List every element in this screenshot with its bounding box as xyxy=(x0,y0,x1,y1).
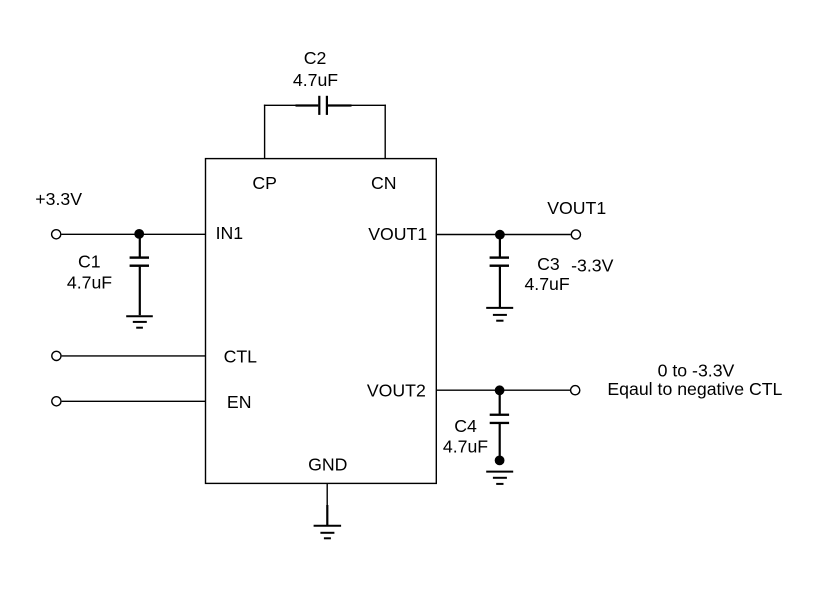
svg-text:Eqaul to negative CTL: Eqaul to negative CTL xyxy=(607,379,782,399)
svg-text:VOUT1: VOUT1 xyxy=(547,198,606,218)
svg-text:C2: C2 xyxy=(304,48,327,68)
capacitor C3 xyxy=(490,235,509,307)
svg-text:-3.3V: -3.3V xyxy=(571,255,613,275)
svg-text:4.7uF: 4.7uF xyxy=(524,274,569,294)
svg-text:4.7uF: 4.7uF xyxy=(443,437,488,457)
terminal CTL xyxy=(52,351,61,360)
capacitor C4 xyxy=(490,390,509,460)
junction dot VOUT2/C4 xyxy=(495,385,505,395)
junction dot VOUT1/C3 xyxy=(495,230,505,240)
svg-text:CN: CN xyxy=(371,173,397,193)
terminal VOUT1 xyxy=(571,230,580,239)
svg-text:EN: EN xyxy=(227,392,252,412)
wire CN to C2 right vertical xyxy=(384,105,386,159)
ground GND lead xyxy=(326,505,328,526)
capacitor C2 xyxy=(296,96,352,115)
junction dot IN1/C1 xyxy=(134,229,144,239)
junction dot C4/ground xyxy=(495,456,505,466)
svg-text:C4: C4 xyxy=(454,416,477,436)
svg-text:IN1: IN1 xyxy=(216,223,244,243)
terminal VOUT2 xyxy=(571,386,580,395)
svg-text:C3: C3 xyxy=(537,254,560,274)
wire EN xyxy=(62,400,206,402)
wire C2 top right horizontal xyxy=(351,104,386,106)
svg-text:CP: CP xyxy=(252,173,277,193)
terminal EN xyxy=(52,397,61,406)
wire C2 top left horizontal xyxy=(264,104,297,106)
wire CP to C2 left vertical xyxy=(264,105,266,159)
ground C4 xyxy=(486,472,513,484)
svg-text:CTL: CTL xyxy=(224,346,258,366)
svg-text:VOUT1: VOUT1 xyxy=(368,224,427,244)
wire CTL xyxy=(62,355,206,357)
svg-text:4.7uF: 4.7uF xyxy=(293,70,338,90)
wire VOUT2 xyxy=(436,389,570,391)
svg-text:4.7uF: 4.7uF xyxy=(67,273,112,293)
ground C3 xyxy=(486,308,513,321)
wire VOUT1 xyxy=(436,234,570,236)
svg-text:GND: GND xyxy=(308,455,347,475)
svg-text:C1: C1 xyxy=(78,252,101,272)
svg-text:VOUT2: VOUT2 xyxy=(367,380,426,400)
ground GND xyxy=(314,526,342,539)
IC U1 body xyxy=(206,159,437,484)
wire IN1 xyxy=(61,233,205,235)
wire GND down xyxy=(326,483,328,506)
capacitor C1 xyxy=(130,234,149,315)
svg-text:0 to -3.3V: 0 to -3.3V xyxy=(658,361,735,381)
terminal IN1 xyxy=(52,230,61,239)
ground C1 xyxy=(126,316,153,328)
svg-text:+3.3V: +3.3V xyxy=(35,189,82,209)
